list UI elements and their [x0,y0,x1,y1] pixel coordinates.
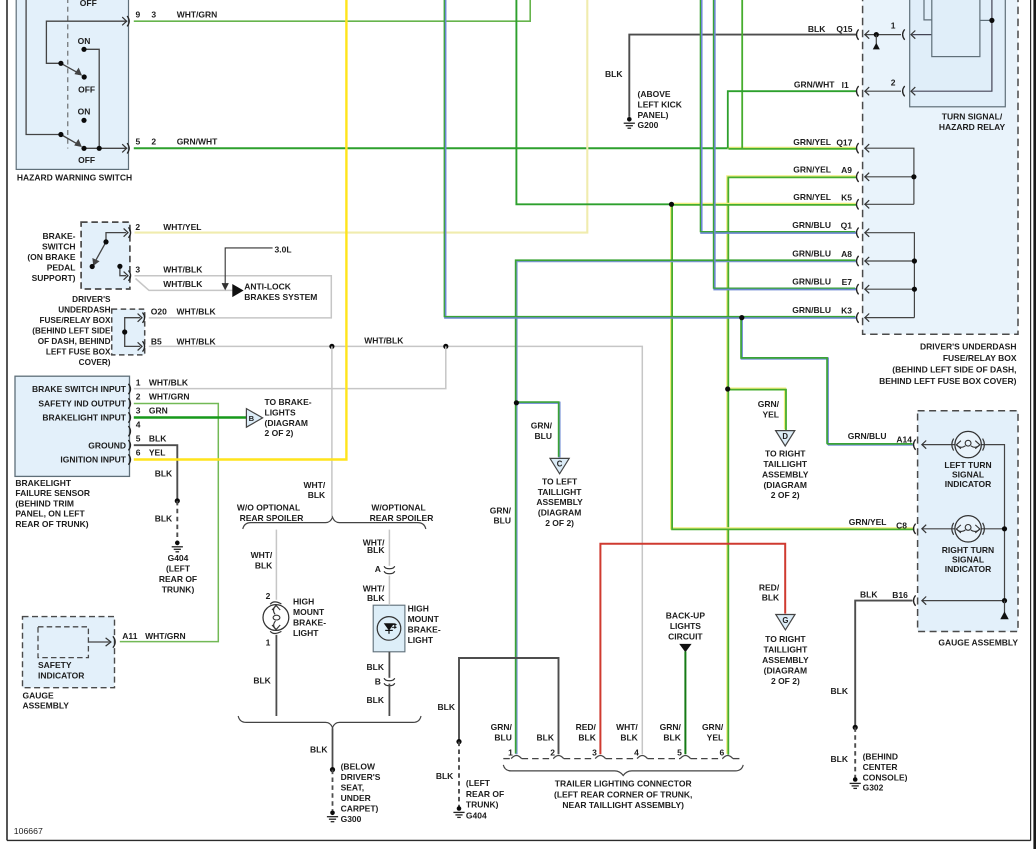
svg-text:5: 5 [677,747,682,757]
svg-text:BLU: BLU [535,431,552,441]
svg-text:BLK: BLK [253,676,271,686]
svg-text:WHT/GRN: WHT/GRN [177,10,218,20]
svg-text:GRN/BLU: GRN/BLU [792,248,831,258]
svg-text:BLK: BLK [367,593,385,603]
svg-text:4: 4 [136,420,141,430]
svg-text:WHT/BLK: WHT/BLK [149,377,189,387]
svg-text:BLK: BLK [663,732,681,742]
svg-text:(LEFT: (LEFT [466,778,491,788]
svg-text:WHT/BLK: WHT/BLK [163,264,203,274]
svg-text:W/O OPTIONAL: W/O OPTIONAL [237,502,300,512]
svg-text:(BEHIND TRIM: (BEHIND TRIM [15,498,74,508]
svg-text:ON: ON [78,36,91,46]
svg-text:MOUNT: MOUNT [408,614,440,624]
svg-text:E7: E7 [842,277,853,287]
svg-text:FAILURE SENSOR: FAILURE SENSOR [15,488,90,498]
svg-text:C8: C8 [896,520,907,530]
svg-text:TRUNK): TRUNK) [162,585,195,595]
svg-text:BLK: BLK [367,545,385,555]
svg-text:BLK: BLK [149,433,167,443]
svg-text:BLK: BLK [860,590,878,600]
svg-text:BLK: BLK [308,490,326,500]
svg-text:HAZARD RELAY: HAZARD RELAY [939,122,1006,132]
svg-text:BLK: BLK [537,732,555,742]
svg-text:REAR OF TRUNK): REAR OF TRUNK) [15,519,88,529]
svg-text:TO LEFT: TO LEFT [542,477,578,487]
svg-text:106667: 106667 [14,826,43,836]
svg-text:6: 6 [719,747,724,757]
svg-text:DRIVER'S UNDERDASH: DRIVER'S UNDERDASH [920,342,1016,352]
svg-text:BLK: BLK [255,561,273,571]
svg-text:REAR SPOILER: REAR SPOILER [240,513,304,523]
svg-text:G302: G302 [863,783,884,793]
svg-text:WHT/: WHT/ [303,480,325,490]
svg-text:BLU: BLU [494,732,511,742]
svg-text:2: 2 [135,222,140,232]
svg-text:NEAR TAILLIGHT ASSEMBLY): NEAR TAILLIGHT ASSEMBLY) [562,800,684,810]
svg-text:BRAKES SYSTEM: BRAKES SYSTEM [244,292,317,302]
svg-text:BRAKE-: BRAKE- [408,625,441,635]
svg-text:RED/: RED/ [576,722,597,732]
svg-text:SUPPORT): SUPPORT) [32,273,76,283]
svg-text:BLK: BLK [808,24,826,34]
svg-text:CENTER: CENTER [863,762,898,772]
svg-text:GRN/YEL: GRN/YEL [793,192,831,202]
svg-text:TO BRAKE-: TO BRAKE- [265,397,312,407]
svg-text:BLK: BLK [620,732,638,742]
svg-text:SIGNAL: SIGNAL [952,469,984,479]
svg-text:HIGH: HIGH [293,596,314,606]
svg-text:WHT/: WHT/ [251,550,273,560]
svg-text:HAZARD WARNING SWITCH: HAZARD WARNING SWITCH [17,172,132,182]
svg-text:2: 2 [891,78,896,88]
svg-text:BLK: BLK [436,771,454,781]
svg-text:BLK: BLK [155,469,173,479]
svg-text:GAUGE: GAUGE [23,690,55,700]
svg-text:GAUGE ASSEMBLY: GAUGE ASSEMBLY [938,638,1018,648]
svg-text:BEHIND LEFT FUSE BOX COVER): BEHIND LEFT FUSE BOX COVER) [879,376,1017,386]
svg-text:2 OF 2): 2 OF 2) [545,518,574,528]
svg-text:GRN/: GRN/ [491,722,513,732]
svg-text:A11: A11 [122,631,137,641]
svg-text:(BEHIND: (BEHIND [863,752,898,762]
svg-text:BLK: BLK [155,514,173,524]
svg-text:B: B [249,414,255,423]
svg-text:9: 9 [136,10,141,20]
svg-text:3: 3 [592,747,597,757]
svg-text:TAILLIGHT: TAILLIGHT [763,459,808,469]
svg-text:2 OF 2): 2 OF 2) [771,490,800,500]
svg-text:TO RIGHT: TO RIGHT [765,449,806,459]
svg-text:HIGH: HIGH [408,604,429,614]
svg-text:GROUND: GROUND [88,440,126,450]
svg-text:BLK: BLK [367,695,385,705]
svg-text:WHT/BLK: WHT/BLK [163,279,203,289]
svg-text:GRN/: GRN/ [531,421,553,431]
svg-text:GRN/YEL: GRN/YEL [793,137,831,147]
svg-text:BLK: BLK [762,593,780,603]
svg-text:INDICATOR: INDICATOR [945,564,991,574]
svg-text:FUSE/RELAY BOX: FUSE/RELAY BOX [943,353,1017,363]
svg-text:CIRCUIT: CIRCUIT [668,631,703,641]
svg-text:WHT/BLK: WHT/BLK [177,307,217,317]
svg-text:BRAKE SWITCH INPUT: BRAKE SWITCH INPUT [32,384,127,394]
svg-text:MOUNT: MOUNT [293,607,325,617]
svg-text:G404: G404 [168,553,189,563]
svg-text:W/OPTIONAL: W/OPTIONAL [371,502,425,512]
svg-text:WHT/: WHT/ [616,722,638,732]
svg-text:SIGNAL: SIGNAL [952,554,984,564]
svg-text:(ON BRAKE: (ON BRAKE [27,252,75,262]
svg-text:K5: K5 [841,193,852,203]
svg-text:YEL: YEL [762,409,779,419]
svg-text:TO RIGHT: TO RIGHT [765,634,806,644]
svg-text:WHT/: WHT/ [363,583,385,593]
svg-text:SEAT,: SEAT, [341,783,364,793]
svg-text:G: G [782,616,788,625]
svg-text:BRAKE-: BRAKE- [293,617,326,627]
svg-text:(BELOW: (BELOW [341,762,376,772]
svg-text:B5: B5 [151,337,162,347]
svg-text:WHT/BLK: WHT/BLK [177,337,217,347]
svg-text:ASSEMBLY: ASSEMBLY [762,655,809,665]
svg-text:LEFT FUSE BOX: LEFT FUSE BOX [46,348,111,357]
svg-text:6: 6 [136,448,141,458]
svg-text:(BEHIND LEFT SIDE: (BEHIND LEFT SIDE [32,327,111,336]
svg-text:BLK: BLK [367,662,385,672]
svg-text:YEL: YEL [707,732,724,742]
svg-text:2 OF 2): 2 OF 2) [265,428,294,438]
svg-text:GRN/BLU: GRN/BLU [848,431,887,441]
svg-text:(DIAGRAM: (DIAGRAM [538,508,581,518]
svg-text:Q17: Q17 [836,138,852,148]
svg-text:WHT/YEL: WHT/YEL [163,222,201,232]
svg-text:IGNITION INPUT: IGNITION INPUT [60,455,126,465]
svg-text:1: 1 [891,21,896,31]
svg-text:G300: G300 [341,814,362,824]
svg-text:RIGHT TURN: RIGHT TURN [942,545,994,555]
svg-text:3: 3 [135,264,140,274]
svg-text:UNDER: UNDER [341,793,371,803]
svg-text:UNDERDASH: UNDERDASH [58,306,110,315]
svg-text:1: 1 [266,638,271,648]
svg-text:(DIAGRAM: (DIAGRAM [265,418,308,428]
svg-text:BLK: BLK [310,744,328,754]
svg-text:INDICATOR: INDICATOR [945,479,991,489]
svg-text:2: 2 [151,137,156,147]
svg-text:TURN SIGNAL/: TURN SIGNAL/ [942,112,1003,122]
svg-text:LIGHTS: LIGHTS [265,408,296,418]
svg-text:BLK: BLK [605,69,623,79]
svg-text:BLK: BLK [578,732,596,742]
svg-text:GRN/: GRN/ [758,399,780,409]
svg-text:BLK: BLK [831,754,849,764]
svg-text:(LEFT: (LEFT [166,564,191,574]
svg-text:D: D [782,432,788,441]
svg-text:(LEFT REAR CORNER OF TRUNK,: (LEFT REAR CORNER OF TRUNK, [554,789,692,799]
svg-text:REAR OF: REAR OF [466,789,504,799]
svg-text:Q15: Q15 [836,24,852,34]
svg-text:BRAKELIGHT: BRAKELIGHT [15,478,72,488]
svg-text:A14: A14 [896,434,912,444]
svg-text:G404: G404 [466,810,487,820]
svg-text:2 OF 2): 2 OF 2) [771,676,800,686]
svg-text:3: 3 [151,10,156,20]
svg-text:GRN/: GRN/ [660,722,682,732]
svg-text:TAILLIGHT: TAILLIGHT [538,487,583,497]
svg-text:REAR OF: REAR OF [159,574,197,584]
svg-text:ASSEMBLY: ASSEMBLY [762,469,809,479]
svg-text:WHT/GRN: WHT/GRN [149,392,190,402]
svg-text:I1: I1 [842,80,849,90]
svg-text:(DIAGRAM: (DIAGRAM [764,665,807,675]
svg-text:ON: ON [78,107,91,117]
svg-text:2: 2 [266,591,271,601]
svg-text:GRN/BLU: GRN/BLU [792,277,831,287]
svg-text:A8: A8 [841,249,852,259]
svg-text:5: 5 [136,433,141,443]
svg-text:LEFT KICK: LEFT KICK [638,100,683,110]
svg-text:TRAILER LIGHTING CONNECTOR: TRAILER LIGHTING CONNECTOR [555,779,692,789]
svg-text:5: 5 [136,137,141,147]
svg-text:K3: K3 [841,306,852,316]
svg-text:B16: B16 [892,590,908,600]
svg-text:(ABOVE: (ABOVE [638,89,671,99]
svg-text:LEFT TURN: LEFT TURN [944,460,991,470]
svg-text:GRN/BLU: GRN/BLU [792,220,831,230]
svg-text:TAILLIGHT: TAILLIGHT [764,644,809,654]
svg-text:ASSEMBLY: ASSEMBLY [23,701,70,711]
svg-text:(DIAGRAM: (DIAGRAM [763,480,806,490]
svg-text:OFF: OFF [78,155,95,165]
svg-text:O20: O20 [151,307,167,317]
svg-text:GRN/: GRN/ [702,722,724,732]
svg-text:GRN/WHT: GRN/WHT [177,137,218,147]
svg-text:B: B [375,676,381,686]
svg-text:REAR SPOILER: REAR SPOILER [370,513,434,523]
svg-text:PEDAL: PEDAL [47,263,76,273]
svg-text:OF DASH, BEHIND: OF DASH, BEHIND [38,337,111,346]
svg-text:2: 2 [136,392,141,402]
svg-text:GRN/: GRN/ [490,505,512,515]
svg-text:PANEL): PANEL) [638,110,669,120]
svg-text:PANEL, ON LEFT: PANEL, ON LEFT [15,509,85,519]
svg-text:RED/: RED/ [759,582,780,592]
svg-text:BRAKE-: BRAKE- [42,231,75,241]
svg-text:4: 4 [634,747,639,757]
svg-text:COVER): COVER) [79,358,111,367]
svg-text:C: C [557,460,563,469]
svg-text:GRN/WHT: GRN/WHT [794,80,835,90]
svg-text:OFF: OFF [80,0,97,8]
svg-text:(BEHIND LEFT SIDE OF DASH,: (BEHIND LEFT SIDE OF DASH, [892,365,1016,375]
svg-text:3: 3 [136,406,141,416]
svg-text:LIGHTS: LIGHTS [670,621,701,631]
svg-text:OFF: OFF [78,85,95,95]
svg-text:SWITCH: SWITCH [42,242,76,252]
svg-text:BRAKELIGHT INPUT: BRAKELIGHT INPUT [42,413,126,423]
svg-text:2: 2 [550,747,555,757]
svg-text:1: 1 [136,377,141,387]
svg-text:ASSEMBLY: ASSEMBLY [536,497,583,507]
svg-text:GRN/YEL: GRN/YEL [849,517,887,527]
svg-text:A9: A9 [841,165,852,175]
svg-text:INDICATOR: INDICATOR [38,670,84,680]
svg-text:CARPET): CARPET) [341,804,379,814]
svg-text:YEL: YEL [149,448,166,458]
svg-text:BLK: BLK [438,702,456,712]
svg-text:SAFETY IND OUTPUT: SAFETY IND OUTPUT [38,399,126,409]
svg-text:CONSOLE): CONSOLE) [863,772,908,782]
svg-text:GRN/BLU: GRN/BLU [792,305,831,315]
svg-text:ANTI-LOCK: ANTI-LOCK [244,281,292,291]
svg-text:GRN: GRN [149,406,168,416]
svg-text:3.0L: 3.0L [275,244,292,254]
svg-text:WHT/BLK: WHT/BLK [364,335,404,345]
svg-text:FUSE/RELAY BOX: FUSE/RELAY BOX [40,316,112,325]
svg-text:LIGHT: LIGHT [293,628,319,638]
svg-text:LIGHT: LIGHT [408,635,434,645]
svg-text:BLU: BLU [494,516,511,526]
svg-text:DRIVER'S: DRIVER'S [72,295,111,304]
svg-text:1: 1 [508,747,513,757]
svg-text:G200: G200 [638,120,659,130]
svg-text:Q1: Q1 [841,221,853,231]
svg-text:BLK: BLK [831,686,849,696]
svg-text:TRUNK): TRUNK) [466,800,499,810]
svg-text:GRN/YEL: GRN/YEL [793,164,831,174]
svg-text:SAFETY: SAFETY [38,660,72,670]
svg-text:A: A [375,564,381,574]
svg-text:DRIVER'S: DRIVER'S [341,772,381,782]
svg-text:WHT/GRN: WHT/GRN [145,631,186,641]
svg-text:BACK-UP: BACK-UP [666,610,706,620]
